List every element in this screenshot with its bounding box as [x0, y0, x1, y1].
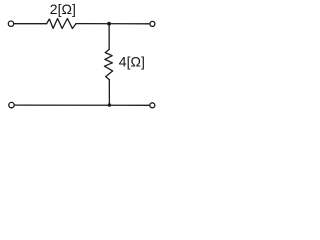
wire top-right segment	[76, 23, 150, 25]
junction dot bottom	[108, 103, 111, 106]
terminal bottom-right	[150, 103, 155, 108]
junction dot top	[107, 22, 111, 26]
svg-text:2[Ω]: 2[Ω]	[50, 1, 76, 17]
wire bottom	[14, 104, 149, 106]
terminal bottom-left	[9, 102, 14, 107]
resistor R2 4 ohm (shunt, vertical)	[104, 49, 112, 79]
wire top-left segment	[14, 23, 47, 25]
wire vertical lower	[108, 80, 110, 105]
svg-text:4[Ω]: 4[Ω]	[119, 54, 145, 70]
resistor R1 2 ohm (series, top)	[47, 19, 76, 29]
terminal top-right	[150, 21, 155, 26]
wire vertical upper	[108, 24, 110, 50]
terminal top-left	[8, 21, 13, 26]
